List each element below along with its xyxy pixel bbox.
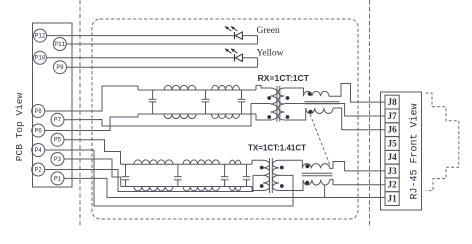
choke CM1 core [305,102,340,104]
choke CM2 core [302,173,333,175]
inductor L5b bottom [230,187,242,191]
pin P1 [51,172,64,185]
pin P10 [34,51,47,64]
label Yellow [257,49,284,59]
choke CM2 top dot [305,164,309,168]
label RX=1CT:1CT [258,73,310,83]
svg-text:P1: P1 [54,175,62,182]
choke CM1 bottom dot [308,110,312,114]
T1 primary dot lower [267,115,271,119]
wire P4 to center tap return [45,149,94,151]
wire T2 primary center tap [253,174,263,176]
label TX=1CT:1.41CT [248,144,306,153]
svg-text:P6: P6 [35,127,43,134]
magnetics module boundary (dashed) [92,19,358,219]
svg-text:J7: J7 [388,111,398,121]
dashed diagonal leader line [310,114,331,167]
svg-text:J3: J3 [388,166,398,176]
pin P12 [34,29,47,42]
inductor L3a top [134,160,173,164]
svg-text:J8: J8 [388,97,398,107]
svg-text:P4: P4 [35,147,43,154]
wire T1 secondary bottom to choke CM1 [285,108,306,120]
wire RX filter to T1 primary bottom [256,114,271,120]
svg-text:P7: P7 [54,117,62,124]
svg-text:P11: P11 [54,41,65,48]
TX filter bottom rail [121,186,252,188]
wire RX filter to T1 primary top [256,85,271,90]
svg-text:RJ-45 Front View: RJ-45 Front View [408,103,420,199]
pin P6 [32,124,45,137]
inductor L4b bottom [183,187,220,191]
transformer T1 core [277,86,280,122]
svg-text:P12: P12 [35,33,46,40]
transformer T2 primary winding [263,160,270,190]
capacitor C3 [238,90,246,114]
wire P1 to J1 [64,178,385,197]
svg-text:Green: Green [257,26,280,36]
inductor L1a top [164,85,196,90]
choke CM2 bottom dot [305,181,309,185]
label RJ-45 Front View [408,103,420,199]
T2 primary dot lower [260,184,264,188]
pin P5 [51,133,64,146]
RJ45 plug outline (dashed) [426,93,459,191]
wire T2 secondary center tap return [94,150,293,206]
capacitor C6 [221,164,229,186]
pin P7 [51,113,64,126]
choke CM1 top winding [304,91,330,96]
pin P2 [32,163,45,176]
svg-text:J6: J6 [388,125,398,135]
terminal J5 [385,137,399,151]
terminal J6 [385,123,399,137]
inductor L1b bottom [164,114,196,119]
inductor L4a top [183,160,220,164]
capacitor C4 [122,164,130,186]
svg-text:TX=1CT:1.41CT: TX=1CT:1.41CT [248,144,306,153]
PCB separation dashed line [79,0,81,226]
choke CM1 top dot [308,92,312,96]
inductor L2b bottom [212,114,240,119]
wire P5 to TX filter top rail [64,140,121,165]
wire green LED loop right [257,36,259,44]
transformer T1 primary winding [271,88,278,120]
capacitor C2 [202,90,210,114]
wire P10 to yellow LED anode [46,57,257,59]
wire choke CM2 bottom to J2 [330,180,385,185]
T2 secondary dot upper [280,166,284,170]
svg-text:P8: P8 [35,108,43,115]
pin P9 [54,61,67,74]
LED D2 yellow [225,49,243,62]
wire T1 secondary center tap to J7 [285,104,385,117]
wire stub choke CM2 to J1 net [324,185,326,198]
pin P11 [53,38,66,51]
wire P2 to T2 center tap [45,170,253,192]
svg-text:P3: P3 [54,156,62,163]
LED D1 green [225,26,243,39]
svg-text:RX=1CT:1CT: RX=1CT:1CT [258,73,310,83]
terminal J8 [385,95,399,109]
terminal J2 [385,178,399,192]
capacitor C7 [243,164,251,186]
RX filter bottom rail [138,113,256,115]
wire P6 to RX filter bottom rail [45,114,138,131]
svg-text:P10: P10 [35,55,46,62]
capacitor C1 [149,90,157,114]
label Green [257,26,280,36]
wire T2 secondary top to choke CM2 [279,160,302,168]
choke CM1 bottom winding [306,108,333,114]
wire yellow LED return to P9 [66,66,257,68]
wire TX filter to T2 primary bottom [252,187,263,191]
choke CM2 top winding [302,164,329,169]
svg-text:P5: P5 [54,137,62,144]
pin P4 [32,144,45,157]
svg-text:J4: J4 [388,152,398,162]
wire P12 to green LED anode [46,35,257,37]
inductor L2a top [212,85,240,90]
RJ45 separation dashed line [369,0,371,226]
choke CM2 bottom winding [303,180,330,186]
wire P7 to T1 center tap [64,104,251,127]
wire T2 secondary bottom to choke CM2 [279,180,303,191]
terminal J7 [385,109,399,123]
wire P8 to RX filter top rail [45,86,138,111]
svg-text:J5: J5 [388,138,398,148]
transformer T2 secondary winding [272,160,279,190]
T1 secondary dot lower [286,115,290,119]
wire T1 secondary top to choke CM1 [285,88,304,96]
svg-text:P9: P9 [56,64,64,71]
wire yellow LED loop right [257,58,259,67]
wire green LED return to P11 [66,43,257,45]
T1 primary dot upper [267,96,271,100]
label PCB Top View [14,93,25,162]
terminal J3 [385,164,399,178]
T1 secondary dot upper [286,96,290,100]
inductor L5a top [230,160,242,164]
wire choke CM1 bottom to J6 [333,108,385,130]
RX filter top rail [138,89,256,91]
svg-text:PCB Top View: PCB Top View [14,93,25,162]
transformer T1 secondary winding [278,88,284,120]
capacitor C5 [174,164,182,186]
PCB header block outline [33,23,73,187]
wire TX filter to T2 primary top [252,160,263,164]
wire choke CM1 top to J8 [329,84,385,103]
T2 primary dot upper [260,166,264,170]
wire T1 primary center tap [251,103,271,105]
wire P3 to TX filter bottom rail [64,159,121,187]
pin P3 [51,153,64,166]
transformer T2 core [270,158,273,193]
svg-text:J2: J2 [388,180,398,190]
terminal J4 [385,150,399,164]
RJ45 header block outline [381,92,422,210]
T2 secondary dot lower [280,184,284,188]
svg-text:Yellow: Yellow [257,49,284,59]
terminal J1 [385,192,399,206]
inductor L3b bottom [134,187,173,191]
wire choke CM2 top to J3 [330,162,385,171]
svg-text:P2: P2 [35,166,43,173]
svg-text:J1: J1 [388,194,398,204]
TX filter top rail [121,163,253,165]
pin P8 [32,105,45,118]
